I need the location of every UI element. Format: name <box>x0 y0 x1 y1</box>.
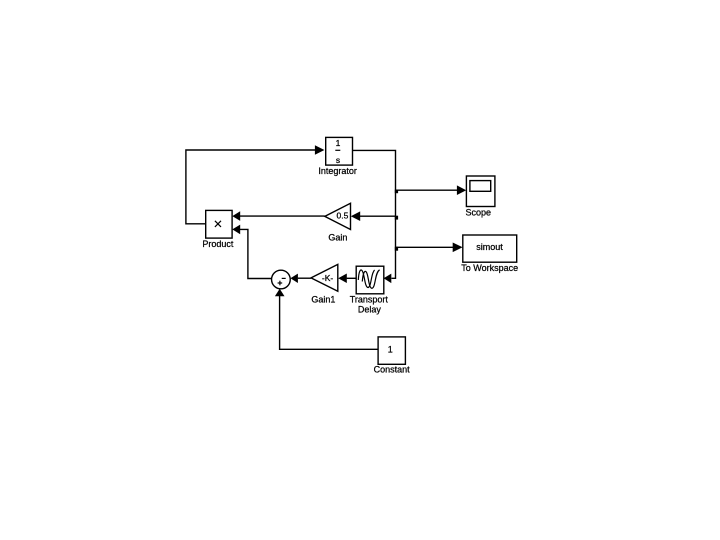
svg-text:simout: simout <box>476 242 503 252</box>
block Gain1 (-K-), flipped pointing left <box>311 264 338 291</box>
wire branch to To Workspace <box>396 246 454 248</box>
svg-text:Integrator: Integrator <box>318 166 357 176</box>
arrowhead into Gain <box>351 211 360 221</box>
wire Gain1 output to Sum input <box>298 277 311 279</box>
arrowhead into Sum bottom input <box>275 289 285 297</box>
svg-text:Gain: Gain <box>328 232 347 242</box>
wire Integrator output to trunk <box>353 150 396 278</box>
block Scope <box>466 176 495 207</box>
wire branch to Scope <box>396 189 458 191</box>
arrowhead into Product input 1 <box>232 211 240 221</box>
block Constant <box>378 337 405 364</box>
block Gain (0.5), flipped pointing left <box>325 203 351 229</box>
junction dot at Scope branch <box>395 190 398 194</box>
svg-text:Delay: Delay <box>358 305 382 315</box>
wire Gain output to Product input 1 <box>240 215 325 217</box>
wire Constant output to Sum input <box>280 296 379 350</box>
svg-text:Constant: Constant <box>374 364 411 374</box>
wire branch to Gain input <box>360 215 396 217</box>
svg-text:-K-: -K- <box>322 273 334 283</box>
arrowhead into To Workspace <box>453 243 463 253</box>
block Transport Delay <box>356 266 384 294</box>
arrowhead into Product input 2 <box>232 225 240 235</box>
svg-text:Scope: Scope <box>466 207 492 217</box>
svg-text:1: 1 <box>388 345 393 355</box>
svg-text:1: 1 <box>336 138 341 148</box>
block Integrator <box>326 137 353 165</box>
wire Product output loop to Integrator input <box>186 150 315 224</box>
arrowhead into Sum right input <box>290 274 298 283</box>
arrowhead into Gain1 <box>338 274 347 284</box>
svg-text:To Workspace: To Workspace <box>461 263 518 273</box>
wire Transport Delay output to Gain1 input <box>347 277 357 279</box>
svg-text:0.5: 0.5 <box>336 210 348 220</box>
svg-text:Gain1: Gain1 <box>311 295 335 305</box>
wire Sum output to Product input 2 <box>240 229 272 278</box>
block To Workspace (simout) <box>463 235 517 262</box>
arrowhead into Transport Delay <box>384 274 392 284</box>
svg-text:s: s <box>336 155 340 165</box>
svg-text:Product: Product <box>202 239 234 249</box>
svg-text:Transport: Transport <box>350 295 389 305</box>
block Product <box>206 210 232 238</box>
block Sum junction circle <box>272 270 291 289</box>
junction dot at To Workspace branch <box>395 247 398 251</box>
junction dot at Gain branch <box>395 216 398 220</box>
arrowhead into Integrator <box>315 145 325 155</box>
arrowhead into Scope <box>457 185 466 195</box>
